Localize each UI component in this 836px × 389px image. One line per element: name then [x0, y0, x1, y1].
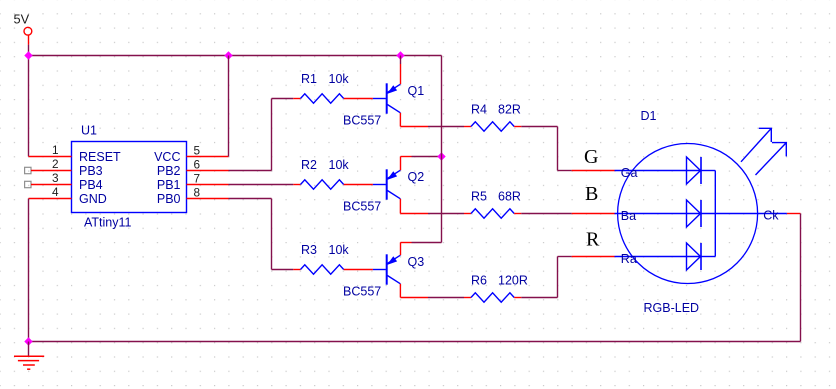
- svg-text:10k: 10k: [329, 243, 350, 257]
- resistor R2 left lead: [293, 184, 300, 186]
- svg-text:Q3: Q3: [408, 255, 425, 269]
- wire Q3 collector to R6: [428, 297, 464, 299]
- svg-text:R1: R1: [301, 72, 317, 86]
- pin number 3: [52, 171, 59, 185]
- IC U1 pin name PB2: [157, 164, 181, 178]
- pin 5 VCC stub: [187, 156, 229, 158]
- IC U1 pin name PB4: [79, 178, 103, 192]
- Q1 emitter pin up: [400, 64, 402, 84]
- pin number 6: [194, 157, 201, 171]
- wire left rail down to pin1: [28, 56, 30, 157]
- transistor Q2 emitter: [387, 170, 400, 178]
- transistor Q1 base pin: [373, 98, 386, 100]
- LED pin label Ra: [621, 252, 637, 266]
- svg-text:BC557: BC557: [343, 114, 381, 128]
- resistor R3 value 10k: [329, 243, 350, 257]
- wire to LED Ga: [558, 170, 572, 172]
- resistor R5 right lead: [514, 213, 521, 215]
- resistor R4 right lead: [514, 126, 521, 128]
- LED cathode stub top: [701, 170, 715, 172]
- wire PB0 to corner: [229, 198, 272, 200]
- Q3 emitter pin up: [400, 243, 402, 256]
- Q2 emitter pin up: [400, 157, 402, 171]
- svg-text:5: 5: [194, 143, 201, 157]
- svg-text:R5: R5: [471, 189, 487, 203]
- junction at VCC drop: [224, 51, 232, 59]
- svg-text:PB2: PB2: [157, 164, 181, 178]
- op IC U1 designator: [81, 124, 97, 138]
- svg-text:BC557: BC557: [343, 200, 381, 214]
- ground symbol: [14, 356, 44, 369]
- transistor Q1 value BC557: [343, 114, 381, 128]
- svg-text:ATtiny11: ATtiny11: [84, 216, 132, 230]
- LED anode pin Ba: [615, 213, 702, 215]
- wire Q3 emitter to rail: [412, 242, 442, 244]
- wire VCC to top rail: [228, 56, 230, 157]
- IC U1 ATtiny11 body: [72, 142, 187, 213]
- no-connect square pin 3: [25, 181, 31, 187]
- resistor R5 designator: [471, 189, 487, 203]
- IC U1 pin name PB1: [157, 178, 181, 192]
- resistor R6 right lead: [514, 297, 521, 299]
- transistor Q1 collector: [387, 105, 400, 113]
- wire to ground: [28, 342, 30, 356]
- pin number 7: [194, 171, 201, 185]
- svg-text:B: B: [585, 183, 598, 205]
- wire Q1 collector to R4: [428, 126, 464, 128]
- transistor Q3 designator: [408, 255, 425, 269]
- svg-text:82R: 82R: [498, 102, 521, 116]
- resistor R6 designator: [471, 273, 487, 287]
- svg-text:Q2: Q2: [408, 170, 425, 184]
- resistor R6 left lead: [464, 297, 471, 299]
- junction Q2 emitter rail: [437, 152, 445, 160]
- LED pin label Ga: [621, 166, 638, 180]
- svg-text:Ck: Ck: [763, 209, 779, 223]
- IC U1 pin name VCC: [154, 150, 180, 164]
- svg-text:1: 1: [52, 143, 59, 157]
- svg-text:U1: U1: [81, 124, 97, 138]
- pin 8 PB0 stub: [187, 198, 229, 200]
- pin number 8: [194, 185, 201, 199]
- wire Ck stub: [787, 213, 801, 215]
- svg-text:RGB-LED: RGB-LED: [644, 301, 700, 315]
- svg-text:5V: 5V: [14, 12, 30, 27]
- node B wire stub: [572, 213, 615, 215]
- node G wire stub: [572, 170, 615, 172]
- wire Q2 collector to R5: [428, 213, 464, 215]
- pin 3 PB4 stub: [31, 184, 72, 186]
- resistor R2 value 10k: [329, 158, 350, 172]
- transistor Q2 base pin: [373, 184, 386, 186]
- wire emitter rail vertical: [441, 56, 443, 243]
- LED cathode pin Ck: [701, 213, 787, 215]
- svg-text:R: R: [586, 229, 600, 251]
- resistor R3 designator: [301, 243, 317, 257]
- LED diode Ga: [687, 157, 702, 184]
- resistor R2 body: [301, 180, 344, 189]
- pin 4 GND stub: [29, 198, 72, 200]
- wire GND pin down left rail: [28, 199, 30, 342]
- wire bottom rail: [29, 341, 801, 343]
- wire PB0 down to R3 row: [271, 199, 273, 270]
- wire R4 corner down: [557, 127, 559, 171]
- IC U1 pin name PB3: [79, 164, 103, 178]
- junction ground: [24, 337, 32, 345]
- resistor R6 value 120R: [498, 273, 528, 287]
- svg-text:Ga: Ga: [621, 166, 638, 180]
- IC U1 pin name RESET: [79, 150, 121, 164]
- pin number 2: [52, 157, 59, 171]
- svg-text:R6: R6: [471, 273, 487, 287]
- transistor Q3 base pin: [373, 269, 386, 271]
- LED D1 designator: [641, 109, 657, 123]
- node B label: [585, 183, 598, 205]
- wire R4 to corner: [521, 126, 557, 128]
- wire 5V to top rail: [28, 45, 30, 56]
- wire to R3: [272, 269, 294, 271]
- power 5V terminal circle: [24, 27, 32, 35]
- resistor R4 left lead: [464, 126, 471, 128]
- LED cathode stub bottom: [701, 256, 715, 258]
- wire top rail horizontal: [29, 55, 442, 57]
- pin 6 PB2 stub: [187, 170, 229, 172]
- wire R5 to LED Ba: [521, 213, 571, 215]
- resistor R1 body: [301, 94, 344, 103]
- transistor Q1 base bar: [386, 83, 388, 113]
- wire Q2 emitter to rail: [412, 156, 442, 158]
- power 5V pin stub: [28, 35, 30, 44]
- wire to R1: [272, 98, 294, 100]
- svg-text:8: 8: [194, 185, 201, 199]
- transistor Q3 collector: [387, 276, 400, 284]
- resistor R1 designator: [301, 72, 317, 86]
- svg-text:10k: 10k: [329, 72, 350, 86]
- transistor Q3 value BC557: [343, 285, 381, 299]
- Q1 collector pin down: [399, 113, 401, 127]
- svg-text:7: 7: [194, 171, 201, 185]
- resistor R1 value 10k: [329, 72, 350, 86]
- transistor Q2 base bar: [386, 169, 388, 199]
- Q3 collector stub right: [400, 297, 428, 299]
- wire PB1 to R2: [229, 184, 294, 186]
- power 5V label: [14, 12, 30, 27]
- node R wire stub: [572, 256, 615, 258]
- svg-text:Ra: Ra: [621, 252, 637, 266]
- LED emission arrow 1: [741, 128, 771, 162]
- resistor R2 right lead: [344, 184, 373, 186]
- svg-text:RESET: RESET: [79, 150, 121, 164]
- LED diode Ra: [687, 243, 702, 270]
- svg-text:BC557: BC557: [343, 285, 381, 299]
- transistor Q2 value BC557: [343, 200, 381, 214]
- svg-text:6: 6: [194, 157, 201, 171]
- transistor Q1 designator: [408, 84, 425, 98]
- LED diode Ba: [687, 200, 702, 227]
- pin 2 PB3 stub: [31, 170, 72, 172]
- resistor R3 body: [301, 265, 344, 274]
- Q2 emitter stub right: [401, 156, 412, 158]
- junction at 5V rail corner: [24, 51, 32, 59]
- wire to LED Ra: [558, 256, 572, 258]
- svg-text:G: G: [584, 146, 598, 168]
- pin 1 RESET stub: [29, 156, 72, 158]
- transistor Q3 base bar: [386, 254, 388, 284]
- transistor Q1 emitter arrow: [388, 86, 396, 93]
- resistor R3 right lead: [344, 269, 373, 271]
- Q3 collector pin down: [399, 284, 401, 298]
- resistor R4 designator: [471, 102, 487, 116]
- transistor Q1 emitter: [387, 84, 400, 92]
- Q1 collector stub right: [400, 126, 428, 128]
- svg-text:3: 3: [52, 171, 59, 185]
- svg-text:R2: R2: [301, 158, 317, 172]
- resistor R2 designator: [301, 158, 317, 172]
- resistor R1 right lead: [344, 98, 373, 100]
- pin 7 PB1 stub: [187, 184, 229, 186]
- transistor Q2 collector: [387, 191, 400, 199]
- Q2 collector stub right: [400, 213, 428, 215]
- svg-text:PB3: PB3: [79, 164, 103, 178]
- resistor R3 left lead: [293, 269, 300, 271]
- resistor R5 value 68R: [498, 189, 521, 203]
- LED emission arrow 2: [756, 143, 787, 175]
- wire PB2 to corner: [229, 170, 272, 172]
- svg-text:68R: 68R: [498, 189, 521, 203]
- svg-text:GND: GND: [79, 192, 107, 206]
- svg-text:2: 2: [52, 157, 59, 171]
- transistor Q3 emitter: [387, 255, 400, 263]
- LED cathode bus: [714, 171, 716, 257]
- LED anode pin Ga: [615, 170, 702, 172]
- wire Q1 emitter to top rail: [400, 56, 402, 65]
- pin number 4: [52, 185, 59, 199]
- LED pin label Ba: [621, 209, 636, 223]
- LED pin label Ck: [763, 209, 779, 223]
- resistor R6 body: [471, 293, 514, 302]
- LED value RGB-LED: [644, 301, 700, 315]
- pin number 1: [52, 143, 59, 157]
- LED anode pin Ra: [615, 256, 702, 258]
- no-connect square pin 2: [25, 167, 31, 173]
- IC U1 value label ATtiny11: [84, 216, 132, 230]
- wire PB2 up to R1 row: [271, 99, 273, 171]
- svg-text:PB4: PB4: [79, 178, 103, 192]
- Q3 emitter stub right: [401, 242, 412, 244]
- resistor R1 left lead: [293, 98, 300, 100]
- node R label: [586, 229, 600, 251]
- resistor R4 body: [471, 122, 514, 131]
- resistor R5 left lead: [464, 213, 471, 215]
- svg-text:R4: R4: [471, 102, 487, 116]
- wire right rail down: [800, 214, 802, 342]
- IC U1 pin name PB0: [157, 192, 181, 206]
- transistor Q3 emitter arrow: [388, 257, 396, 264]
- svg-text:4: 4: [52, 185, 59, 199]
- svg-text:R3: R3: [301, 243, 317, 257]
- IC U1 pin name GND: [79, 192, 107, 206]
- Q2 collector pin down: [399, 199, 401, 214]
- svg-text:Q1: Q1: [408, 84, 425, 98]
- resistor R4 value 82R: [498, 102, 521, 116]
- svg-text:PB0: PB0: [157, 192, 181, 206]
- svg-text:10k: 10k: [329, 158, 350, 172]
- wire R6 corner up: [557, 257, 559, 298]
- svg-text:VCC: VCC: [154, 150, 180, 164]
- node G label: [584, 146, 598, 168]
- svg-text:PB1: PB1: [157, 178, 181, 192]
- junction at Q1 emitter: [396, 51, 404, 59]
- svg-text:D1: D1: [641, 109, 657, 123]
- LED D1 body circle: [618, 144, 758, 284]
- transistor Q2 emitter arrow: [388, 172, 396, 179]
- transistor Q2 designator: [408, 170, 425, 184]
- wire R6 to corner: [521, 297, 557, 299]
- resistor R5 body: [471, 209, 514, 218]
- pin number 5: [194, 143, 201, 157]
- svg-text:Ba: Ba: [621, 209, 636, 223]
- svg-text:120R: 120R: [498, 273, 528, 287]
